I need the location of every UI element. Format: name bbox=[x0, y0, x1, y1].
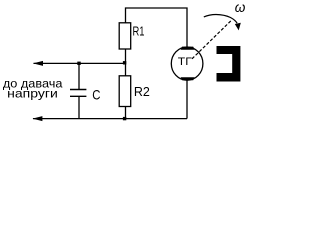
node junction R1/R2 bbox=[123, 61, 126, 64]
stator magnet bbox=[217, 46, 241, 82]
svg-text:R1: R1 bbox=[133, 24, 145, 39]
capacitor C bottom plate bbox=[70, 95, 86, 97]
node junction R2 bottom bbox=[123, 117, 126, 120]
arrow to voltage sensor (middle) bbox=[33, 61, 43, 66]
wire capacitor top stub bbox=[78, 63, 80, 89]
wire generator bottom to bottom rail bbox=[186, 80, 188, 119]
capacitor C top plate bbox=[70, 89, 86, 91]
brush bar top bbox=[181, 47, 195, 50]
wire bottom horizontal bbox=[33, 118, 187, 120]
resistor R1 bbox=[119, 23, 131, 49]
rotation arrow curve bbox=[204, 15, 237, 24]
brush bar bottom bbox=[181, 77, 195, 80]
svg-text:R2: R2 bbox=[134, 84, 150, 99]
node junction capacitor top bbox=[77, 62, 80, 65]
wire between R1 and R2 bbox=[125, 49, 127, 76]
shaft axis dashed line bbox=[191, 20, 232, 60]
resistor R2 bbox=[119, 76, 131, 107]
wire below R2 bbox=[125, 107, 127, 119]
svg-text:C: C bbox=[92, 87, 100, 103]
svg-text:ω: ω bbox=[235, 0, 246, 15]
arrow to voltage sensor (bottom) bbox=[32, 116, 42, 121]
tachogenerator TG body bbox=[171, 47, 203, 80]
svg-text:ТГ: ТГ bbox=[178, 56, 192, 68]
wire top loop: R1 branch top to generator top bbox=[126, 8, 188, 47]
rotation arrow head bbox=[235, 23, 241, 31]
wire capacitor bottom stub bbox=[78, 96, 80, 118]
wire middle horizontal bbox=[34, 62, 126, 64]
svg-text:напруги: напруги bbox=[7, 87, 58, 101]
